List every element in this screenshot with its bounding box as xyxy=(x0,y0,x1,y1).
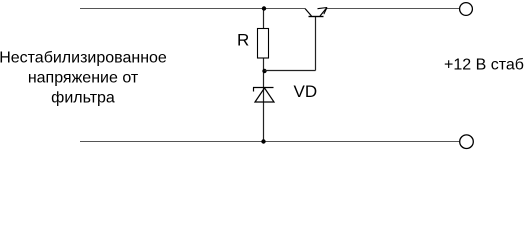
svg-text:+12 В стаб: +12 В стаб xyxy=(444,57,524,74)
svg-text:напряжение от: напряжение от xyxy=(28,70,139,87)
svg-text:R: R xyxy=(237,31,249,50)
svg-text:Нестабилизированное: Нестабилизированное xyxy=(0,50,167,67)
svg-text:фильтра: фильтра xyxy=(51,90,115,107)
svg-text:VD: VD xyxy=(294,82,318,101)
